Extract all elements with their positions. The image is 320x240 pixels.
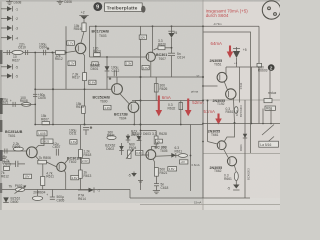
resistor R604 <box>32 196 42 200</box>
voltage box 12k right <box>125 61 132 65</box>
wire right vertical main <box>202 26 204 198</box>
power arrow +2 <box>79 11 88 23</box>
wire board edge left <box>89 26 91 57</box>
wire T602 collector <box>65 158 68 164</box>
transistor T601 circle <box>26 147 37 158</box>
transistor T662 base bar <box>229 158 231 164</box>
bus box label <box>139 35 146 39</box>
power arrow +5 right <box>233 47 247 58</box>
resistor R627 <box>12 50 23 54</box>
wire C611 stub <box>85 130 87 135</box>
input connector arrow -5 <box>1 73 18 78</box>
node cap branch <box>34 104 36 106</box>
wire T661 emitter to T662 <box>224 150 228 158</box>
voltage box 1.7V <box>67 41 75 46</box>
wire T605 collector stub <box>152 144 157 150</box>
transistor T605 base bar <box>148 152 150 158</box>
capacitor lower input <box>13 102 15 107</box>
TO-3 can outline top right <box>262 1 280 19</box>
wire mid-left bus <box>35 124 203 126</box>
power arrow +5 mid <box>168 26 177 37</box>
capacitor C611 <box>83 126 92 130</box>
bottom bus right <box>130 197 250 199</box>
node bus top <box>140 76 142 78</box>
resistor R626 <box>154 84 158 92</box>
board outline top <box>90 25 260 27</box>
voltage box 2.6V b <box>81 159 89 164</box>
resistor R617 <box>83 73 87 81</box>
resistor R603 <box>13 147 23 151</box>
wire top-right horiz <box>226 66 262 68</box>
wire R816 to T603 <box>81 32 84 44</box>
transistor T602 base bar <box>58 164 60 169</box>
wire T661 base feed <box>208 142 218 145</box>
fold crease vertical <box>202 0 204 210</box>
transistor T651b base bar <box>228 91 230 97</box>
resistor R620 <box>158 46 165 50</box>
wire R620 leads <box>154 48 159 50</box>
wire T602 emitter <box>64 170 65 189</box>
wire T605 base <box>141 154 149 156</box>
capacitor C607 <box>56 149 58 156</box>
wire right mid horiz <box>203 123 280 125</box>
transistor T605 circle <box>146 150 156 160</box>
wire T601 emitter <box>36 156 43 177</box>
resistor R611 <box>178 154 187 158</box>
capacitor C614 <box>168 53 175 77</box>
resistor R611 low <box>41 177 45 186</box>
capacitor C604 <box>44 47 50 55</box>
voltage box 0.6V mid <box>142 65 149 69</box>
bottom bus left <box>2 189 130 191</box>
wire R623 column <box>95 26 97 52</box>
input connector arrow 2 <box>1 16 18 21</box>
node top bus b <box>171 25 173 27</box>
voltage box 625 <box>41 139 53 144</box>
sheet number badge 9 <box>93 2 102 11</box>
wire T604 collector <box>136 101 141 103</box>
capacitor C805 <box>50 190 55 200</box>
transistor T651a circle <box>217 72 227 82</box>
component box on right drop <box>257 63 262 66</box>
resistor R632 <box>179 103 183 110</box>
fold crease bottom <box>140 204 280 206</box>
grain overlay <box>0 0 280 210</box>
voltage box 0.6V <box>89 80 96 84</box>
node bus x35 <box>34 124 36 126</box>
node bus mid <box>140 100 142 102</box>
wire +5 stem <box>171 38 173 54</box>
node 203/77 <box>202 76 204 78</box>
wire mid bus upper <box>107 76 203 78</box>
wire R618 column <box>80 125 82 150</box>
wire T601 collector <box>36 136 45 149</box>
central bus vertical <box>140 26 142 190</box>
transistor T600 base bar <box>114 86 116 92</box>
dark blob right of title <box>141 6 145 13</box>
resistor R816 <box>82 23 86 32</box>
diode D605 <box>156 153 179 158</box>
wire base feed line <box>35 88 112 90</box>
node R632 bus <box>180 124 182 126</box>
diode D600 <box>3 197 9 202</box>
component box R66 <box>265 106 275 110</box>
node bus x134 <box>133 124 135 126</box>
ground C618 <box>153 186 160 194</box>
wire right col vertical <box>269 70 271 100</box>
node output mid <box>190 155 192 157</box>
input connector arrow 1 <box>1 6 18 11</box>
voltage box 2.6V <box>71 175 79 179</box>
node 203/86 <box>202 85 204 87</box>
wire output node down <box>207 101 209 142</box>
resistor R621 <box>107 136 116 140</box>
left edge shadow <box>0 0 2 210</box>
switch contact 1 <box>262 125 274 136</box>
wire T600 emitter to T604 base <box>120 94 129 104</box>
resistor R613 <box>82 106 86 113</box>
node 203/123.5 <box>202 123 204 125</box>
transistor T603 circle <box>75 43 85 53</box>
title box Treiberplatte <box>105 3 143 12</box>
node 203/141.5 <box>202 141 204 143</box>
resistor R606 <box>38 160 47 164</box>
top right pinkish paper <box>203 0 280 100</box>
wire left long vertical <box>52 53 54 125</box>
input connector arrow 5 <box>1 64 18 69</box>
wire T605 emitter down <box>153 159 155 168</box>
transistor T607 circle <box>146 52 155 61</box>
wire +5 down <box>236 58 238 67</box>
paper background <box>0 0 280 210</box>
bottom strip lighter <box>0 203 280 210</box>
capacitor T601 input <box>5 149 7 154</box>
voltage box 0.6V low <box>136 151 143 156</box>
transistor T651a base bar <box>219 74 221 80</box>
capacitor C618 <box>154 176 159 186</box>
voltage box 0V above BC303 <box>156 139 163 143</box>
switch contact 2 <box>262 137 274 148</box>
speaker box La <box>259 141 279 147</box>
capacitor C612 <box>109 71 117 82</box>
transistor T604 circle <box>128 102 139 113</box>
node mid right <box>234 122 236 124</box>
wire T651a collector up <box>225 67 227 74</box>
resistor R628 <box>154 136 158 144</box>
transistor T661 base bar <box>219 143 221 148</box>
diode D602 <box>119 143 124 155</box>
wire bus step <box>129 190 131 199</box>
diode D601 <box>105 57 110 89</box>
diode D603 <box>137 136 142 141</box>
resistor R622 <box>155 168 159 177</box>
ground C606 <box>57 0 64 4</box>
capacitor C808 <box>10 161 25 167</box>
input connector arrow 3 <box>1 25 18 30</box>
wire top right seg <box>258 26 260 123</box>
resistor R618 <box>79 150 83 158</box>
wire mid bus 2 <box>132 100 203 102</box>
capacitor C605 left <box>33 94 37 96</box>
resistor R613b <box>79 170 83 178</box>
ground tick mid bus <box>138 181 143 183</box>
power arrow -5 right <box>227 181 240 191</box>
ground D606 <box>1 155 7 159</box>
resistor R661 <box>234 172 238 181</box>
node base feed <box>52 88 54 90</box>
wire T604 emitter <box>133 113 135 125</box>
resistor R608 <box>21 103 31 107</box>
ground D608 <box>6 0 13 4</box>
wire cap branch vertical <box>34 53 36 125</box>
wire T661 collector up <box>224 123 235 142</box>
node R620/+5 <box>171 47 173 49</box>
transistor T602 circle <box>57 162 66 171</box>
transistor T661 circle <box>217 141 226 150</box>
fold crease right horizontal 2 <box>203 153 280 155</box>
node emitter bus <box>84 124 86 126</box>
capacitor C610 <box>26 50 28 55</box>
wire T603 emitter down <box>82 53 84 125</box>
resistor R623 <box>94 53 101 57</box>
capacitor input <box>7 50 9 55</box>
wire T601 base line <box>2 150 27 152</box>
node bus low <box>140 124 142 126</box>
voltage box 1.6V <box>70 140 77 144</box>
transistor T600 circle <box>112 84 123 95</box>
resistor R607 <box>42 122 50 125</box>
node D601 top <box>106 56 108 58</box>
fold crease right horizontal 1 <box>203 99 280 101</box>
resistor R612 <box>56 51 66 55</box>
wire lower input line <box>2 103 35 105</box>
node 203/100 <box>202 100 204 102</box>
voltage box 1.2V <box>68 61 75 66</box>
wire junction to base <box>65 52 67 54</box>
wire boxes column <box>65 26 67 89</box>
wire right col drop <box>239 67 241 103</box>
resistor R651 <box>234 107 238 114</box>
node top bus c <box>95 25 97 27</box>
voltage box 2V <box>180 160 188 164</box>
diode right col <box>243 100 247 198</box>
wire R628 feed <box>141 130 157 132</box>
wire output mid vertical <box>190 125 192 192</box>
badge 2 <box>268 64 275 71</box>
wire T600 collector stub <box>116 77 118 84</box>
wire input line <box>3 52 66 54</box>
node bus x53 <box>52 124 54 126</box>
bottom right panel paper <box>203 154 280 199</box>
node chain tap <box>34 52 36 54</box>
node base bus <box>84 88 86 90</box>
node top bus a <box>152 25 154 27</box>
vertical from top bus <box>152 26 154 52</box>
voltage box 1.2 small <box>92 62 98 66</box>
transistor T651b circle <box>226 89 236 99</box>
trimmer P602 <box>9 184 27 194</box>
resistor R6602 <box>264 99 272 103</box>
resistor R612 small <box>4 166 10 170</box>
voltage box 3.8V <box>168 167 177 171</box>
voltage box 1.7V mid <box>104 105 111 109</box>
top edge shade <box>0 0 280 2</box>
transistor T603 base bar <box>77 45 79 51</box>
wire R632 column <box>180 101 182 125</box>
node corner x35 <box>34 88 36 90</box>
right panel lighter paper <box>203 0 280 210</box>
wire T651a base feed <box>203 85 218 87</box>
transistor T662 circle <box>227 157 236 166</box>
wire R626 <box>155 77 157 101</box>
diode D604 <box>126 134 131 143</box>
wire T602 base <box>46 162 56 167</box>
trimpot P604 <box>126 149 134 159</box>
board outline right box <box>204 32 251 153</box>
bottom right corner paper <box>203 198 280 210</box>
inductor L605 box <box>37 131 47 136</box>
right col verticals to bus <box>251 67 253 124</box>
voltage box 10V <box>24 174 32 178</box>
wire base line T607 <box>90 56 147 58</box>
connector -1 <box>78 187 100 192</box>
wire T651b emitter down <box>234 99 235 124</box>
wire T607 emitter <box>150 61 152 77</box>
power arrow -5 small <box>128 172 137 178</box>
transistor T601 base bar <box>28 149 30 155</box>
bus junction dots <box>251 123 253 125</box>
transistor T607 base bar <box>148 54 150 60</box>
transistor T604 base bar <box>130 104 132 110</box>
node input junction <box>52 52 54 54</box>
wire T651a emitter to T651b <box>224 82 227 91</box>
input connector arrow 4 <box>1 35 18 40</box>
node 203 top <box>202 25 204 27</box>
node output <box>207 100 209 102</box>
wire T662 emitter down <box>234 165 236 172</box>
